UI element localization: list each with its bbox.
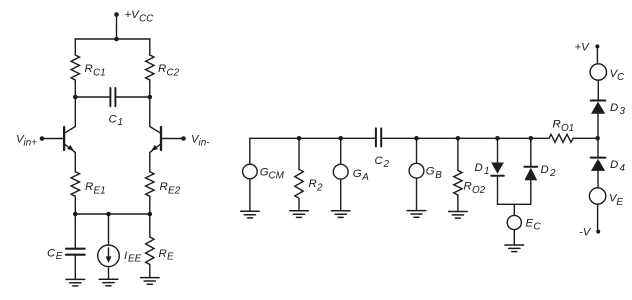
svg-text:E1: E1 (94, 185, 106, 196)
source GCM (243, 138, 285, 211)
svg-text:CC: CC (139, 14, 154, 25)
wire diode bottoms (498, 203, 531, 205)
resistor RE2 (146, 172, 181, 214)
wire collector rail right (115, 95, 152, 100)
ground (RE) (141, 278, 160, 285)
resistor R2 (295, 138, 323, 211)
diode D4 (591, 138, 626, 188)
node output junction (595, 136, 600, 141)
svg-text:B: B (435, 170, 442, 181)
svg-text:in+: in+ (24, 137, 38, 148)
wire collector rail left (73, 95, 110, 100)
svg-text:R: R (85, 181, 93, 193)
resistor RC2 (146, 39, 180, 97)
ground (RO2) (449, 212, 468, 219)
svg-text:C: C (109, 113, 118, 125)
svg-text:1: 1 (118, 117, 124, 128)
node RO2 junction (456, 136, 461, 141)
node GB junction (414, 136, 419, 141)
svg-text:R: R (160, 181, 168, 193)
diode D3 (591, 101, 626, 139)
node +V (575, 41, 600, 53)
ground (CE) (66, 279, 85, 286)
svg-text:G: G (260, 166, 269, 178)
svg-text:2: 2 (383, 159, 390, 170)
svg-text:+V: +V (575, 41, 591, 53)
node D1 junction (495, 136, 500, 141)
svg-text:R: R (159, 248, 167, 260)
svg-text:4: 4 (620, 163, 626, 174)
resistor RE1 (71, 172, 105, 214)
capacitor C2 (375, 128, 390, 170)
svg-text:D: D (610, 102, 618, 114)
svg-text:+V: +V (125, 9, 141, 21)
resistor RE (146, 214, 174, 278)
source VC (590, 46, 625, 100)
source VE (589, 188, 623, 230)
capacitor CE (47, 214, 85, 279)
node D2 junction (529, 136, 534, 141)
svg-text:C: C (617, 72, 625, 83)
svg-text:E: E (167, 251, 174, 262)
svg-text:O1: O1 (561, 123, 574, 134)
transistor Q2 (150, 97, 161, 172)
ground (GA) (331, 211, 350, 218)
svg-text:C: C (47, 247, 56, 259)
svg-text:R: R (85, 63, 93, 75)
node -V (579, 227, 600, 239)
node R2 junction (297, 136, 302, 141)
svg-text:G: G (353, 168, 362, 180)
svg-text:A: A (361, 172, 369, 183)
svg-text:2: 2 (316, 183, 323, 194)
capacitor C1 (109, 88, 124, 128)
source GA (333, 138, 369, 211)
resistor RO1 (549, 119, 574, 143)
svg-text:E: E (526, 218, 534, 230)
svg-text:C: C (375, 155, 384, 167)
svg-text:E: E (616, 197, 623, 208)
diode D2 (524, 138, 556, 204)
svg-text:C: C (534, 222, 542, 233)
svg-text:EE: EE (128, 254, 142, 265)
svg-text:E: E (56, 251, 63, 262)
source GB (409, 138, 442, 210)
node Vin+ (16, 134, 64, 149)
node +VCC (114, 9, 154, 39)
svg-text:O2: O2 (472, 185, 486, 196)
svg-text:R: R (553, 119, 561, 131)
svg-text:in-: in- (199, 137, 211, 148)
svg-text:R: R (309, 178, 317, 190)
svg-text:D: D (475, 162, 483, 174)
svg-text:R: R (158, 63, 166, 75)
svg-text:G: G (426, 166, 435, 178)
source EC (507, 204, 541, 245)
svg-text:R: R (464, 181, 472, 193)
ground (R2) (290, 211, 309, 218)
resistor RC1 (71, 39, 106, 97)
svg-text:-V: -V (579, 227, 592, 239)
ground (IEE) (99, 279, 118, 286)
resistor RO2 (454, 138, 486, 211)
svg-text:D: D (541, 164, 549, 176)
wire main rail (right circuit) (250, 137, 598, 139)
transistor Q1 (64, 97, 75, 172)
node GA junction (338, 136, 343, 141)
node Vin- (161, 134, 210, 149)
diode D1 (475, 138, 504, 204)
ground (EC) (505, 245, 524, 252)
svg-text:CM: CM (269, 170, 285, 181)
ground (GCM) (241, 211, 260, 218)
svg-text:E2: E2 (168, 185, 181, 196)
wire top rail (75, 37, 150, 42)
svg-text:2: 2 (549, 168, 556, 179)
svg-text:D: D (610, 159, 618, 171)
svg-text:3: 3 (620, 106, 626, 117)
svg-text:C1: C1 (93, 68, 106, 79)
ground (GB) (407, 211, 426, 218)
wire emitter rail (73, 212, 152, 217)
current source IEE (98, 214, 142, 279)
svg-text:C2: C2 (167, 68, 180, 79)
svg-text:1: 1 (484, 166, 490, 177)
